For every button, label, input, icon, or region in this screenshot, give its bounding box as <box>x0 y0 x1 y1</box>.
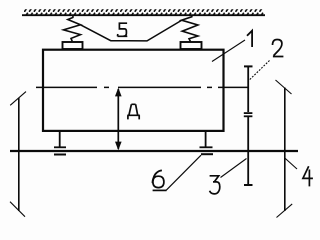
body 1 (machine box) <box>43 50 224 131</box>
leader 3 <box>221 159 247 178</box>
block left <box>63 42 83 49</box>
gap bar upper <box>244 112 253 114</box>
ceiling hatching <box>24 9 264 14</box>
spring left <box>64 16 81 41</box>
label A (Cyrillic De) <box>127 104 140 119</box>
label 2 <box>273 40 284 57</box>
leader 1 <box>212 40 245 62</box>
bracket left bottom tick <box>10 202 25 217</box>
bracket right bottom tick <box>277 204 293 218</box>
label 5 <box>118 23 128 36</box>
bracket left top tick <box>10 92 26 106</box>
gap bar lower <box>244 115 253 117</box>
bracket right top tick <box>276 80 292 94</box>
centerline (dash-dot axis) <box>36 86 248 88</box>
support leg right <box>205 131 207 147</box>
dimension A arrow <box>117 89 119 149</box>
rod lower (item 3) <box>247 117 249 185</box>
frame bracket right (item 4) <box>284 88 286 212</box>
pad under line left <box>54 154 66 156</box>
ceiling line <box>22 14 265 16</box>
base line <box>10 150 298 152</box>
frame bracket left <box>18 98 20 211</box>
label 3 <box>210 176 220 194</box>
cord 5 <box>81 20 182 41</box>
rod upper (sensor 2) <box>247 67 249 112</box>
label 4 <box>303 166 313 186</box>
leader 6 <box>153 189 167 191</box>
block right <box>181 42 202 49</box>
rod top bar <box>244 65 253 67</box>
leader 2 <box>250 60 271 80</box>
leader 4 <box>285 158 297 169</box>
spring right <box>182 15 198 41</box>
label 6 <box>152 170 163 187</box>
damper pad 6 <box>201 153 213 155</box>
rod bottom bar <box>244 184 253 186</box>
support leg left <box>59 131 61 147</box>
label 1 <box>247 31 252 47</box>
